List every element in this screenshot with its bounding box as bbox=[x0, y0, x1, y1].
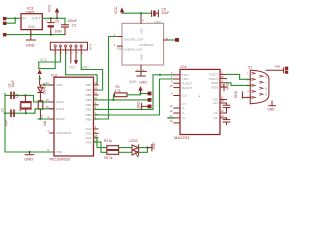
svg-text:RB5: RB5 bbox=[86, 93, 92, 97]
svg-text:14: 14 bbox=[170, 119, 173, 123]
svg-text:12: 12 bbox=[170, 109, 173, 113]
junction bus C2 bbox=[4, 112, 6, 114]
svg-text:C3: C3 bbox=[72, 24, 76, 28]
capacitor C1 20pF bbox=[7, 80, 15, 99]
svg-text:GND: GND bbox=[275, 66, 281, 69]
svg-text:10uF: 10uF bbox=[162, 11, 170, 15]
svg-text:7: 7 bbox=[265, 81, 267, 84]
svg-text:SV1: SV1 bbox=[88, 44, 92, 51]
svg-text:GND: GND bbox=[24, 156, 33, 161]
svg-text:GND: GND bbox=[28, 25, 36, 29]
ground symbol at pad SL1-3 bbox=[136, 101, 147, 110]
wire pad2 up to IN node bbox=[6, 18, 15, 23]
junction out-VCC bbox=[56, 17, 58, 19]
connector pad X2-2 bbox=[3, 22, 6, 25]
junction module VCC bbox=[140, 12, 142, 14]
wire SV1 pin1 to VCC arrow bbox=[39, 54, 55, 69]
module top pin VCC stub bbox=[140, 13, 142, 23]
SV1 pin 2 bbox=[59, 47, 61, 54]
IC2 left pin numbers bbox=[46, 81, 50, 152]
svg-text:GND: GND bbox=[136, 101, 140, 109]
ground symbol below X1 bbox=[267, 101, 275, 112]
ground at X1 pin5 bbox=[234, 90, 251, 98]
svg-text:C2-: C2- bbox=[213, 111, 218, 115]
wire LED cathodes to GND bbox=[139, 147, 148, 149]
svg-text:5: 5 bbox=[77, 52, 79, 54]
LED1 bbox=[132, 150, 139, 158]
wire SV1 pin2 to VCC arrow bbox=[39, 54, 61, 69]
SV1 pin 1 bbox=[54, 47, 56, 54]
svg-text:RB4: RB4 bbox=[86, 98, 92, 102]
svg-text:VCC: VCC bbox=[114, 6, 118, 14]
SV1 pin 5 with down arrow bbox=[74, 47, 78, 65]
junction on T1IN wire bbox=[159, 74, 161, 76]
svg-text:GND: GND bbox=[129, 80, 137, 84]
svg-text:14: 14 bbox=[46, 81, 49, 85]
crystal Q1 4MHz bbox=[15, 93, 31, 113]
SV1 pin 4 bbox=[70, 47, 72, 63]
resistor R1 10k bbox=[38, 101, 47, 126]
svg-text:5: 5 bbox=[47, 148, 49, 152]
svg-text:R3 1k: R3 1k bbox=[104, 139, 113, 143]
svg-text:GND: GND bbox=[267, 108, 275, 112]
svg-text:2: 2 bbox=[61, 52, 63, 54]
svg-text:R1OUT: R1OUT bbox=[182, 81, 192, 85]
svg-text:Q1: Q1 bbox=[15, 93, 19, 97]
junction IN node bbox=[14, 17, 16, 19]
svg-text:C2: C2 bbox=[0, 108, 4, 112]
DB9 connector X1 bbox=[248, 66, 269, 104]
module GND pins tie wire bbox=[136, 70, 146, 72]
voltage regulator IC3 7805 bbox=[21, 14, 42, 30]
pad SL1-2 bbox=[148, 98, 151, 101]
svg-text:20pF: 20pF bbox=[11, 80, 15, 87]
microcontroller IC2 PIC16F628 bbox=[50, 72, 94, 161]
junction VCC pad node bbox=[139, 92, 141, 94]
ground rail bottom of regulator bbox=[6, 34, 65, 36]
green stub at IC4 pin 17 bbox=[168, 117, 174, 119]
junction LED cathode bbox=[146, 146, 148, 148]
wire DIGITAL_OUT to IC2 RA2 bbox=[94, 37, 118, 120]
IC4 right pin numbers bbox=[221, 71, 224, 119]
wire SV1 pin3 to IC2 RB7 bbox=[66, 54, 98, 85]
svg-text:+: + bbox=[198, 94, 200, 98]
wire SV1 pin6 to IC2 RB6 bbox=[81, 54, 102, 90]
svg-text:RB3: RB3 bbox=[86, 103, 92, 107]
wire IC2 RB1 to IC4 T2IN bbox=[94, 79, 174, 115]
svg-text:4: 4 bbox=[142, 19, 144, 23]
junction VSS rail bbox=[28, 151, 30, 153]
svg-text:V-: V- bbox=[182, 111, 185, 115]
junction R4 bottom bbox=[112, 99, 114, 101]
svg-text:GND: GND bbox=[234, 90, 238, 98]
svg-text:9: 9 bbox=[171, 92, 173, 96]
svg-text:IC4: IC4 bbox=[180, 64, 187, 69]
svg-text:V-: V- bbox=[182, 106, 185, 110]
ground symbol GND below 7805 bbox=[26, 35, 35, 48]
svg-text:GND: GND bbox=[152, 142, 156, 150]
capacitor C3 100nF bbox=[62, 18, 77, 34]
svg-text:3: 3 bbox=[114, 43, 116, 47]
wire antenna to pad bbox=[169, 39, 175, 41]
wire OSC1 bbox=[5, 95, 54, 102]
svg-text:7805: 7805 bbox=[26, 9, 36, 14]
svg-text:9: 9 bbox=[265, 93, 267, 96]
svg-text:4.7k: 4.7k bbox=[115, 89, 121, 93]
IC4 pin names right bbox=[208, 73, 218, 121]
supply symbol VCC at IC2 VDD bbox=[37, 69, 41, 85]
svg-text:3: 3 bbox=[171, 79, 173, 83]
IC4 pin names left bbox=[182, 73, 192, 120]
svg-text:+OUT: +OUT bbox=[31, 17, 40, 21]
wire pad1 to IN bbox=[6, 17, 21, 19]
svg-text:6: 6 bbox=[265, 75, 267, 78]
svg-text:4: 4 bbox=[71, 52, 73, 54]
wire X1 shield to GND pads bbox=[266, 69, 283, 71]
svg-text:PIC16F628: PIC16F628 bbox=[50, 157, 71, 162]
X1 left column pins bbox=[252, 72, 255, 98]
pad SL1-3 bbox=[148, 105, 151, 108]
svg-text:10k: 10k bbox=[43, 120, 47, 126]
connector pad X2-3 bbox=[3, 33, 6, 36]
svg-text:OSC2: OSC2 bbox=[56, 107, 65, 111]
capacitor C5 10uF bbox=[152, 7, 170, 24]
junction out-C4 bbox=[50, 17, 52, 19]
svg-text:100n: 100n bbox=[55, 30, 63, 34]
svg-text:VCC: VCC bbox=[40, 58, 48, 62]
svg-text:V+: V+ bbox=[182, 116, 186, 120]
junction crystal bottom bbox=[25, 112, 27, 114]
IC2 right pin numbers bbox=[94, 81, 97, 142]
IC4 right pin stubs bbox=[220, 74, 227, 118]
svg-text:VSS: VSS bbox=[56, 150, 62, 154]
capacitor C7 at C2 pins bbox=[223, 118, 230, 125]
junction rail-C4 bbox=[50, 33, 52, 35]
module bottom pin GND stub bbox=[140, 65, 142, 76]
svg-text:RA2: RA2 bbox=[86, 132, 92, 136]
svg-text:MCLR: MCLR bbox=[56, 117, 65, 121]
antenna pad bbox=[175, 38, 178, 41]
svg-text:1: 1 bbox=[247, 72, 249, 75]
svg-text:RB6: RB6 bbox=[86, 88, 92, 92]
svg-text:LED2: LED2 bbox=[129, 139, 138, 143]
svg-text:DIGITAL_OUT: DIGITAL_OUT bbox=[124, 38, 144, 42]
wire IC2 RA1 to R3 bbox=[94, 138, 107, 148]
resistor R4 4.7k bbox=[113, 85, 140, 100]
svg-text:R2 1k: R2 1k bbox=[104, 156, 113, 160]
svg-text:RA3: RA3 bbox=[86, 127, 92, 131]
svg-text:LINEAR_OUT: LINEAR_OUT bbox=[124, 48, 143, 52]
IC2 right pin stubs bbox=[94, 85, 99, 142]
resistor R3 1k bbox=[104, 139, 119, 150]
svg-text:GND: GND bbox=[140, 53, 144, 61]
wire VDD bbox=[40, 84, 54, 86]
svg-text:C2-: C2- bbox=[213, 116, 218, 120]
svg-text:8: 8 bbox=[265, 87, 267, 90]
svg-text:C1+: C1+ bbox=[182, 94, 188, 98]
wire IC2 RB2 to IC4 T1IN bbox=[94, 75, 174, 110]
capacitor C6 at C2 pins bbox=[223, 103, 230, 113]
svg-text:+: + bbox=[46, 19, 48, 23]
resistor R2 1k bbox=[104, 150, 118, 159]
ground symbol at module bbox=[137, 76, 147, 84]
svg-text:RB7: RB7 bbox=[86, 83, 92, 87]
RF receiver module IC1 bbox=[122, 23, 164, 65]
svg-text:C1-: C1- bbox=[182, 101, 187, 105]
IC4 left pin stubs bbox=[174, 75, 180, 123]
module pin 8 ANTENNA stub bbox=[164, 39, 169, 41]
capacitor C2 20pF bbox=[0, 108, 14, 126]
pin header SV1 bbox=[0, 6, 288, 162]
supply symbol VCC at R4 bbox=[138, 86, 142, 94]
svg-text:VCC: VCC bbox=[69, 66, 77, 70]
ground symbol at LEDs bbox=[147, 142, 156, 151]
junction VDD node bbox=[39, 77, 41, 79]
LED2 bbox=[129, 139, 138, 153]
wire 7805 GND stub bbox=[30, 30, 32, 35]
X1 right column pins bbox=[260, 75, 263, 95]
pad G2 bbox=[285, 71, 288, 74]
svg-text:100nF: 100nF bbox=[67, 19, 77, 23]
svg-text:IN: IN bbox=[22, 17, 26, 21]
wire R2 to LED1 bbox=[119, 151, 132, 153]
svg-text:OSC1: OSC1 bbox=[56, 100, 65, 104]
svg-text:GND: GND bbox=[26, 43, 35, 48]
wire IC4 T1OUT to X1 pin2 bbox=[227, 74, 252, 79]
pad G1 bbox=[285, 67, 288, 70]
junction MCLR node bbox=[39, 118, 41, 120]
capacitor C4 electrolytic bbox=[46, 18, 63, 34]
IC2 pin names left bbox=[56, 83, 72, 154]
svg-text:4: 4 bbox=[247, 90, 249, 93]
connector pad X2-1 bbox=[3, 17, 6, 20]
svg-text:T0CKI/RA4: T0CKI/RA4 bbox=[56, 131, 72, 135]
supply symbol VCC at module bbox=[114, 6, 124, 14]
wire 7805 OUT bbox=[42, 17, 65, 19]
svg-text:3: 3 bbox=[66, 52, 68, 54]
IC4 left pin numbers bbox=[170, 71, 173, 123]
ground bus left bbox=[5, 94, 54, 153]
svg-text:MAX233: MAX233 bbox=[174, 135, 190, 140]
SV1 pin 3 bbox=[65, 47, 67, 54]
pad SL1-1 bbox=[148, 92, 151, 95]
svg-text:RA0: RA0 bbox=[86, 140, 92, 144]
svg-text:R2IN: R2IN bbox=[211, 85, 218, 89]
wire IC2 RA0 to R2 bbox=[94, 142, 107, 152]
svg-text:13: 13 bbox=[170, 104, 173, 108]
svg-text:VCC: VCC bbox=[48, 4, 52, 12]
svg-text:C2+: C2+ bbox=[213, 101, 219, 105]
wire R3 to LED2 bbox=[119, 147, 132, 149]
module pin 3 LINEAR_OUT stub bbox=[118, 45, 123, 47]
wire VCC rail to C5 bbox=[122, 12, 151, 14]
svg-text:16: 16 bbox=[46, 98, 49, 102]
svg-text:RB1: RB1 bbox=[86, 113, 92, 117]
svg-text:C4: C4 bbox=[55, 19, 59, 23]
diode D1 1N4148 bbox=[38, 83, 47, 101]
ground symbol at IC4 R2IN bbox=[224, 82, 230, 91]
svg-text:4: 4 bbox=[47, 115, 49, 119]
wire IC2 RB2 to pad SL1-2 bbox=[94, 99, 148, 101]
junction rail-7805 bbox=[30, 33, 32, 35]
svg-text:15: 15 bbox=[46, 105, 49, 109]
svg-text:GND: GND bbox=[154, 20, 162, 24]
wire OSC2 bbox=[5, 109, 54, 113]
wire to pad SL1-1 bbox=[141, 93, 148, 95]
IC2 pin names right bbox=[86, 83, 92, 144]
svg-text:1: 1 bbox=[56, 52, 58, 54]
svg-text:6: 6 bbox=[82, 52, 84, 54]
junction crystal top bbox=[24, 94, 26, 96]
svg-text:IC2: IC2 bbox=[51, 72, 58, 77]
svg-text:20: 20 bbox=[170, 84, 173, 88]
ground symbol GND at VSS rail bbox=[24, 152, 33, 161]
svg-text:3: 3 bbox=[47, 129, 49, 133]
svg-text:VDD: VDD bbox=[56, 83, 63, 87]
module pin 2 DIGITAL_OUT stub bbox=[118, 36, 123, 38]
SV1 pin 6 bbox=[80, 47, 82, 54]
svg-text:RB0: RB0 bbox=[86, 117, 92, 121]
svg-text:X1: X1 bbox=[248, 66, 252, 70]
svg-text:GND: GND bbox=[139, 80, 147, 84]
svg-text:RA1: RA1 bbox=[86, 136, 92, 140]
supply symbol VCC near 7805 bbox=[48, 4, 60, 18]
svg-text:GND: GND bbox=[117, 47, 125, 51]
wire MCLR bbox=[38, 118, 54, 120]
RS232 driver IC4 MAX233 bbox=[174, 64, 220, 140]
svg-text:R2OUT: R2OUT bbox=[182, 86, 192, 90]
wire IC4 R1IN to X1 pin3 bbox=[227, 83, 252, 86]
svg-text:4MHz: 4MHz bbox=[18, 103, 22, 112]
X1 pin numbers bbox=[247, 72, 267, 99]
svg-text:VCC: VCC bbox=[140, 27, 144, 34]
terminator bar at shield bbox=[282, 68, 284, 73]
svg-text:RB2: RB2 bbox=[86, 108, 92, 112]
junction module GND bbox=[140, 70, 142, 72]
IC2 left pin stubs bbox=[50, 85, 55, 133]
